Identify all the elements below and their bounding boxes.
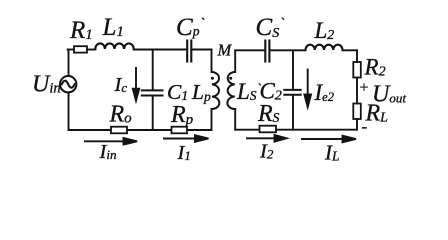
svg-text:L1: L1 xyxy=(102,14,124,41)
svg-text:IL: IL xyxy=(324,141,340,165)
svg-text:L2: L2 xyxy=(314,18,335,43)
svg-text:Lp: Lp xyxy=(191,80,211,104)
svg-text:Cp`: Cp` xyxy=(176,14,204,41)
svg-text:Ic: Ic xyxy=(114,74,128,96)
svg-text:I1: I1 xyxy=(177,142,191,164)
svg-text:R1: R1 xyxy=(69,17,93,44)
svg-text:Iin: Iin xyxy=(99,141,117,163)
svg-text:Uin: Uin xyxy=(32,72,61,98)
svg-text:RS: RS xyxy=(257,101,280,127)
svg-text:C2: C2 xyxy=(260,79,282,104)
svg-text:-: - xyxy=(362,117,368,136)
svg-text:Ro: Ro xyxy=(109,102,133,128)
svg-text:M: M xyxy=(217,40,233,59)
svg-text:+: + xyxy=(359,80,370,97)
svg-text:Ie2: Ie2 xyxy=(314,80,334,105)
svg-text:Rp: Rp xyxy=(170,102,194,128)
svg-text:C1: C1 xyxy=(167,80,188,104)
svg-text:I2: I2 xyxy=(259,141,274,163)
svg-text:R2: R2 xyxy=(364,55,386,80)
svg-text:CS`: CS` xyxy=(256,14,285,41)
